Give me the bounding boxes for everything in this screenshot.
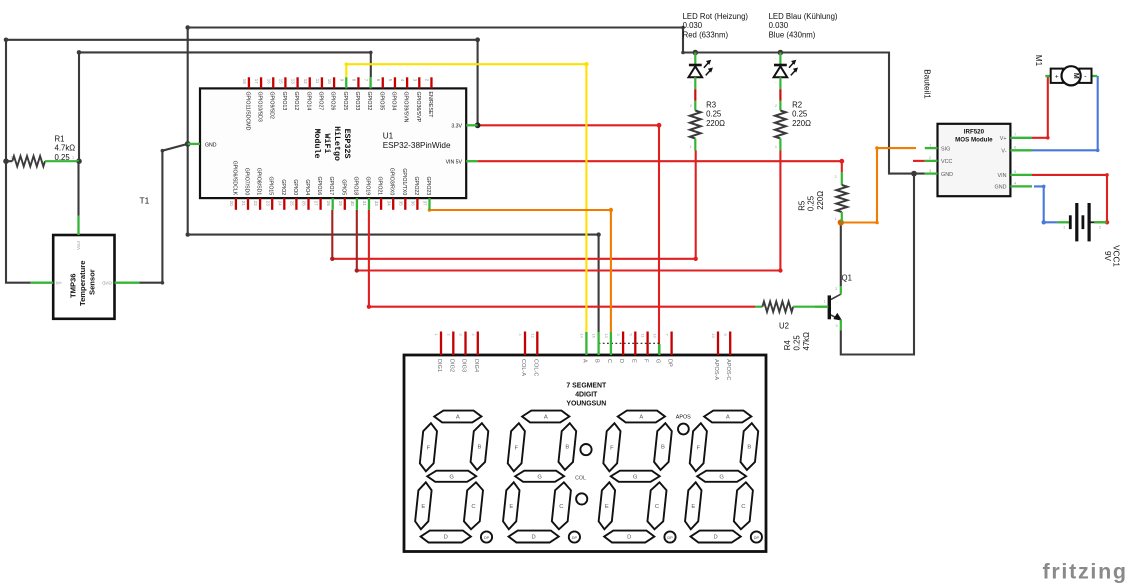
svg-text:GPIO5: GPIO5 [340,179,346,195]
svg-text:GPIO11/SDCMD: GPIO11/SDCMD [244,92,250,131]
svg-text:18: 18 [242,79,247,84]
svg-text:GND: GND [995,185,1007,191]
svg-text:GPIO1/TX0: GPIO1/TX0 [401,168,407,195]
svg-text:4DIGIT: 4DIGIT [575,391,598,398]
svg-text:GPIO8/SD1: GPIO8/SD1 [256,168,262,196]
display digit 3 [599,411,676,543]
wire GND branch to display pin B [188,144,599,332]
svg-text:YOUNGSUN: YOUNGSUN [566,400,606,407]
ESP32 module U1 box [200,88,466,198]
svg-text:GPIO9/SD2: GPIO9/SD2 [269,92,275,120]
svg-text:F: F [697,445,701,451]
svg-text:D: D [627,535,631,541]
svg-text:~: ~ [775,57,777,61]
svg-text:E: E [691,504,695,510]
svg-text:31: 31 [362,201,367,206]
svg-text:LED Blau (Kühlung): LED Blau (Kühlung) [769,12,838,21]
svg-text:2: 2 [835,175,837,179]
wire GPIO17 (pin 28) to R3 bottom [332,151,695,259]
svg-text:15: 15 [279,79,284,84]
svg-text:GPIO35: GPIO35 [378,92,384,111]
display digit 1 [415,411,492,543]
svg-text:GPIO33: GPIO33 [354,92,360,111]
svg-text:29: 29 [338,201,343,206]
svg-text:23: 23 [265,201,270,206]
svg-text:APOS: APOS [676,414,691,420]
svg-text:2: 2 [446,334,451,336]
svg-text:DIG4: DIG4 [473,359,479,372]
svg-text:F: F [610,445,614,451]
7-segment display box [404,355,766,552]
svg-text:G: G [449,474,454,480]
svg-text:Red (633nm): Red (633nm) [683,30,729,39]
svg-text:B: B [565,445,569,451]
svg-text:D: D [618,359,624,363]
wire orange GPIO23 (pin 37) to display pin C [430,210,611,332]
motor M1 [1034,55,1097,86]
svg-text:R1: R1 [55,135,65,144]
svg-text:TMP36: TMP36 [69,274,78,298]
LED LED1 red with resistor R3 [683,12,749,151]
svg-text:2: 2 [775,104,777,108]
display colon COL [575,444,591,505]
svg-text:~: ~ [690,57,692,61]
svg-text:5: 5 [628,334,633,336]
svg-text:DP: DP [572,536,578,540]
svg-text:DIG3: DIG3 [461,359,467,372]
svg-text:6: 6 [1014,145,1016,150]
wire GPIO18 (pin 30) to R2 bottom [357,151,781,271]
svg-text:A: A [581,359,587,363]
temperature sensor T1 TMP36 [31,161,150,319]
svg-text:D: D [532,535,536,541]
svg-text:GPIO12: GPIO12 [293,92,299,111]
svg-text:E: E [630,359,636,363]
svg-text:13: 13 [604,334,609,338]
svg-text:GPIO16: GPIO16 [316,176,322,195]
svg-text:5: 5 [1014,169,1016,174]
svg-text:M+: M+ [56,281,63,286]
wire orange R5 bottom to MOS SIG [841,148,916,222]
svg-text:Temperature: Temperature [78,261,87,306]
svg-text:1: 1 [72,156,74,160]
battery VCC1 9V [1058,203,1121,267]
svg-text:GPIO19: GPIO19 [365,176,371,195]
svg-text:GPIO25: GPIO25 [342,92,348,111]
svg-text:F: F [427,445,431,451]
svg-text:DIG2: DIG2 [448,359,454,372]
svg-text:A: A [544,415,548,421]
svg-text:9: 9 [723,334,728,336]
svg-text:VCC: VCC [941,159,952,165]
svg-text:GPIO26: GPIO26 [330,92,336,111]
svg-text:IRF520: IRF520 [964,128,985,135]
svg-text:SIG: SIG [941,146,950,152]
svg-text:COL-A: COL-A [520,359,526,376]
svg-text:E: E [605,504,609,510]
wire red MOS VIN to battery + [1032,175,1107,222]
svg-text:GPIO27: GPIO27 [317,92,323,111]
svg-text:F: F [643,359,649,363]
svg-text:Vout: Vout [76,240,81,250]
svg-text:LED Rot (Heizung): LED Rot (Heizung) [683,12,749,21]
svg-text:GPIO7/SD0: GPIO7/SD0 [244,168,250,196]
svg-text:EN/RESET: EN/RESET [427,92,433,119]
svg-text:M: M [1072,73,1079,79]
svg-text:10: 10 [327,79,332,84]
wire red MOS VCC stub [913,160,925,162]
wire blue MOS GND to battery - [1034,186,1058,222]
svg-text:0.25: 0.25 [55,153,71,162]
svg-text:0.030: 0.030 [683,21,703,30]
svg-text:VIN: VIN [998,173,1007,179]
svg-text:C: C [471,504,475,510]
svg-text:2: 2 [835,287,837,291]
MOSFET module Bauteil1 IRF520 [923,69,1033,196]
svg-text:37: 37 [423,201,428,206]
svg-text:VIN 5V: VIN 5V [446,159,463,165]
svg-text:COL-C: COL-C [532,359,538,376]
svg-text:DIG1: DIG1 [436,359,442,372]
svg-text:GND: GND [205,142,217,148]
svg-text:1: 1 [824,300,826,304]
wire yellow GPIO25 (pin 9) to display pin A [346,64,586,332]
svg-text:A: A [456,415,460,421]
ESP32 GND pin stub [188,143,200,145]
wire R1 left to 3.3V branch (top line B) [6,40,478,161]
svg-text:33: 33 [374,201,379,206]
svg-text:GPIO39/SVN: GPIO39/SVN [403,92,409,123]
svg-text:2: 2 [1099,225,1101,230]
ESP32 VIN 5V pin stub [466,160,477,162]
svg-text:3.3V: 3.3V [451,124,462,130]
svg-text:~: ~ [690,81,692,85]
svg-text:24: 24 [277,201,282,206]
svg-text:GND: GND [102,281,112,286]
svg-text:3: 3 [836,324,838,328]
svg-text:DP: DP [754,536,760,540]
svg-text:3: 3 [616,334,621,336]
svg-text:R3: R3 [706,101,716,110]
svg-text:17: 17 [254,79,259,84]
svg-text:7: 7 [665,334,670,336]
svg-text:G: G [537,474,542,480]
svg-text:28: 28 [326,201,331,206]
svg-text:GPIO14: GPIO14 [305,92,311,111]
svg-text:V+: V+ [1000,136,1007,142]
svg-text:0.25: 0.25 [793,335,802,351]
svg-text:GPIO23: GPIO23 [425,176,431,195]
svg-text:G: G [719,474,724,480]
svg-text:13: 13 [291,79,296,84]
svg-text:11: 11 [641,334,646,338]
svg-text:GPIO15: GPIO15 [268,176,274,195]
display digit 2 [503,411,580,543]
svg-text:220Ω: 220Ω [706,119,725,128]
svg-text:MOS Module: MOS Module [955,137,993,144]
transistor Q1 [815,273,852,330]
svg-text:Blue (430nm): Blue (430nm) [769,30,816,39]
display digit 4 [685,411,762,543]
svg-text:1: 1 [835,217,837,221]
svg-text:16: 16 [592,334,597,338]
svg-text:B: B [594,359,600,363]
svg-text:Sensor: Sensor [88,269,97,295]
svg-text:E: E [509,504,513,510]
svg-text:GND: GND [941,172,953,178]
svg-text:GPIO21: GPIO21 [377,176,383,195]
svg-text:A: A [726,415,730,421]
svg-text:3: 3 [459,334,464,336]
fritzing logo [1043,559,1128,583]
svg-text:34: 34 [386,201,391,206]
svg-text:C: C [606,359,612,363]
svg-text:Module: Module [312,129,322,159]
svg-text:D: D [444,535,448,541]
svg-text:GPIO0: GPIO0 [292,179,298,195]
svg-text:~: ~ [775,81,777,85]
svg-text:ESP32S: ESP32S [342,129,351,159]
svg-text:1: 1 [929,142,931,147]
wire R1 left down to TMP36 M+ [6,161,31,283]
svg-text:1: 1 [1063,225,1065,230]
svg-text:C: C [559,504,563,510]
wire 3.3V net black branch up to R1 line [477,40,479,126]
svg-text:1: 1 [434,334,439,336]
svg-text:7: 7 [1014,132,1016,137]
svg-text:B: B [477,445,481,451]
wire red MOS V+ to motor + [1032,76,1048,138]
wire R1 right up over to ESP32 pin 7 GPIO32 [79,52,371,161]
svg-text:36: 36 [411,201,416,206]
svg-text:11: 11 [315,79,320,84]
svg-text:APOS-A: APOS-A [713,359,719,380]
svg-text:GPIO6/SDCLK: GPIO6/SDCLK [231,161,237,196]
svg-text:M1: M1 [1034,55,1043,67]
svg-text:12: 12 [530,334,535,338]
svg-text:220Ω: 220Ω [816,191,825,210]
svg-text:21: 21 [241,201,246,206]
svg-text:GPIO22: GPIO22 [413,176,419,195]
svg-text:30: 30 [350,201,355,206]
svg-text:0.25: 0.25 [792,110,808,119]
svg-text:R5: R5 [797,200,806,211]
svg-text:GPIO17: GPIO17 [328,176,334,195]
svg-text:Q1: Q1 [842,273,852,282]
wire blue MOS V- to motor - [1032,76,1098,150]
svg-text:G: G [654,359,660,363]
svg-text:4.7kΩ: 4.7kΩ [55,144,76,153]
svg-text:2: 2 [690,104,692,108]
svg-text:12: 12 [303,79,308,84]
svg-text:T1: T1 [140,196,150,206]
svg-text:3: 3 [929,168,931,173]
svg-text:G: G [633,474,638,480]
LED LED2 blue with resistor R2 [769,12,838,151]
svg-text:R4: R4 [783,340,792,351]
svg-text:C: C [741,504,745,510]
svg-text:25: 25 [290,201,295,206]
svg-text:GPIO18: GPIO18 [352,176,358,195]
svg-text:APOS-C: APOS-C [725,359,731,380]
svg-text:7 SEGMENT: 7 SEGMENT [566,382,607,389]
svg-text:GPIO4: GPIO4 [304,179,310,195]
wire Q1 collector to R5 bottom junction [840,223,842,287]
svg-text:GPIO36/SVP: GPIO36/SVP [415,92,421,123]
svg-text:DP: DP [667,359,673,367]
svg-text:HiLetgo: HiLetgo [332,126,342,161]
svg-text:ESP32-38PinWide: ESP32-38PinWide [383,141,451,150]
svg-text:Bauteil1: Bauteil1 [923,69,932,99]
svg-text:220Ω: 220Ω [792,119,811,128]
svg-text:C: C [655,504,659,510]
svg-text:35: 35 [398,201,403,206]
display top pins [434,332,731,381]
svg-text:R2: R2 [792,101,802,110]
svg-text:GPIO32: GPIO32 [366,92,372,111]
svg-text:GPIO2: GPIO2 [280,179,286,195]
wire GPIO19 (pin 31) to R4 [369,210,755,307]
svg-text:2: 2 [11,156,13,160]
ESP32 3.3V pin stub [466,124,477,126]
svg-text:1: 1 [690,145,692,149]
svg-text:0.25: 0.25 [706,110,722,119]
svg-text:WiFi: WiFi [322,134,332,154]
svg-text:26: 26 [302,201,307,206]
svg-text:22: 22 [253,201,258,206]
svg-text:U1: U1 [383,132,394,141]
display apostrophe APOS [676,414,691,434]
svg-text:E: E [421,504,425,510]
svg-text:20: 20 [229,201,234,206]
svg-text:+: + [1055,74,1059,81]
svg-text:COL: COL [575,476,586,482]
svg-text:V-: V- [1001,149,1006,155]
ESP32 bottom pins 20..37 [229,161,431,210]
ratsnest dashed display B to G [599,342,660,344]
svg-text:9V: 9V [1103,251,1112,262]
wire GND net: ESP32 GND up and over to LED anodes, to MOS GND [188,28,925,174]
svg-text:fritzing: fritzing [1043,559,1128,583]
svg-text:GPIO13: GPIO13 [281,92,287,111]
resistor R4 47k (U2) [755,302,828,351]
svg-text:GPIO3/RX0: GPIO3/RX0 [389,168,395,196]
svg-text:DP: DP [667,536,673,540]
resistor R5 220 [797,172,847,223]
svg-text:F: F [515,445,519,451]
svg-text:1: 1 [775,145,777,149]
resistor R1 4.7k [6,135,79,167]
wire 3.3V red to display pin G [478,125,659,355]
svg-text:D: D [714,535,718,541]
svg-text:27: 27 [314,201,319,206]
svg-text:B: B [747,445,751,451]
svg-text:GPIO34: GPIO34 [390,92,396,111]
wire T1: TMP36 GND to ESP32 GND junction [140,144,188,283]
svg-text:47kΩ: 47kΩ [802,332,811,351]
svg-text:A: A [639,415,643,421]
svg-text:B: B [661,445,665,451]
svg-text:U2: U2 [779,322,789,331]
svg-text:2: 2 [929,155,931,160]
svg-text:DP: DP [484,536,490,540]
ESP32 top pins 18..2 [242,77,433,130]
svg-text:0.25: 0.25 [807,195,816,211]
svg-text:0.030: 0.030 [769,21,789,30]
svg-text:GPIO10/SD3: GPIO10/SD3 [257,92,263,122]
wire VIN 5V red to R5 top [478,161,842,172]
svg-text:16: 16 [266,79,271,84]
wire GND branch: MOS GND junction down to Q1 emitter [841,174,914,355]
